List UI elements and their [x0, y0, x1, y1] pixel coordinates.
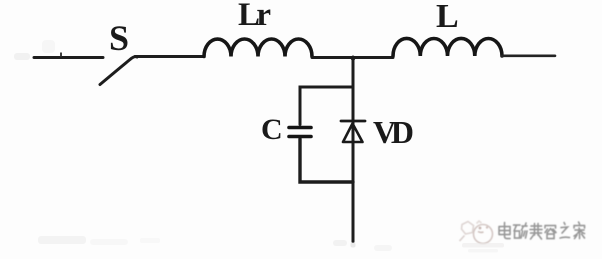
- wire: left lead: [34, 56, 103, 59]
- wire: Lr to L with junction: [312, 56, 393, 59]
- svg-text:S: S: [109, 18, 129, 58]
- diode VD triangle: [343, 124, 363, 143]
- node A: junction vertical wire down through diode: [352, 57, 355, 242]
- watermark text 电磁兼容之家 strokes: [498, 221, 584, 239]
- wire: capacitor loop bottom: [300, 139, 353, 182]
- wire: switch to Lr: [135, 55, 204, 58]
- node tick on left lead: [60, 53, 62, 58]
- wire: right lead: [502, 54, 555, 57]
- junction node dot: [351, 56, 355, 60]
- inductor L coil: [393, 38, 502, 56]
- watermark logo faint caption: [462, 243, 504, 253]
- diode VD cathode bar: [341, 120, 365, 123]
- wire: capacitor loop top: [300, 87, 353, 125]
- inductor Lr coil: [204, 39, 312, 57]
- svg-text:L: L: [436, 0, 459, 35]
- switch S blade: [100, 57, 137, 85]
- capacitor C plates: [289, 126, 311, 130]
- svg-text:VD: VD: [373, 114, 414, 150]
- watermark logo icon: [460, 221, 493, 244]
- wire end fade: [351, 243, 356, 248]
- svg-text:Lr: Lr: [238, 0, 271, 33]
- svg-text:C: C: [261, 113, 283, 146]
- faint scan smudge left of wire: [14, 40, 160, 245]
